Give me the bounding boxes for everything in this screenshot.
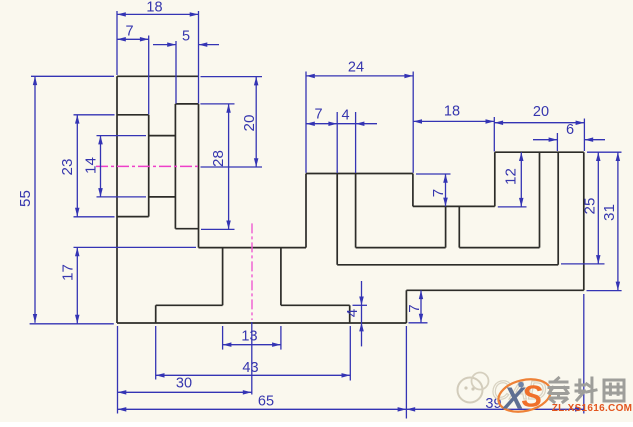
extension line y=216.8 xyxy=(74,216,115,218)
svg-text:7: 7 xyxy=(125,24,133,40)
outline shelf below inner column xyxy=(175,228,198,230)
outline boss left side xyxy=(222,248,224,306)
extension line y=247.4 long xyxy=(74,246,197,248)
dimension 17 xyxy=(60,247,80,323)
extension line x=494.3 xyxy=(493,117,495,152)
extension line x=557.4 xyxy=(556,133,558,151)
extension line x=251.6 bottom xyxy=(251,322,253,395)
outline slot right edge xyxy=(458,206,460,247)
extension line x=222.6 bottom xyxy=(222,326,224,350)
dimension 25 xyxy=(582,152,601,264)
dimension 7 bottom right xyxy=(406,290,423,322)
extension line x=198.5 top xyxy=(198,11,200,104)
outline internal edge b xyxy=(355,174,357,248)
svg-text:24: 24 xyxy=(348,60,364,76)
svg-text:5: 5 xyxy=(182,29,190,45)
outline ledge right drop xyxy=(349,305,351,323)
svg-text:6: 6 xyxy=(566,122,574,138)
outline left edge xyxy=(116,76,118,323)
extension line x=406.4 bottom xyxy=(405,326,407,419)
outline rectangle A bottom xyxy=(117,216,149,218)
svg-text:ZL.XS1616.COM: ZL.XS1616.COM xyxy=(552,403,633,414)
extension line x=117 top xyxy=(116,11,118,75)
watermark char 2 xyxy=(576,378,596,402)
extension line y=229.4 xyxy=(201,228,235,230)
outline central shelf xyxy=(199,247,307,249)
outline middle shelf xyxy=(413,205,495,207)
dimension 55 left xyxy=(17,76,37,322)
outline step at bottom right xyxy=(405,290,407,323)
extension line x=176 xyxy=(175,41,177,104)
extension line x=337.2 xyxy=(336,112,338,173)
svg-text:4: 4 xyxy=(344,309,361,317)
dimension 28 xyxy=(210,104,231,229)
svg-text:12: 12 xyxy=(502,168,519,185)
svg-text:18: 18 xyxy=(146,0,162,16)
dimension 6 (outside arrows) xyxy=(533,122,605,142)
extension line y=206.9 xyxy=(498,206,527,208)
extension line y=196.9 xyxy=(97,196,147,198)
extension line y=322.8 small xyxy=(409,322,428,324)
outline bottom edge xyxy=(117,322,406,324)
outline right-view left edge xyxy=(305,174,307,248)
svg-text:28: 28 xyxy=(210,150,227,167)
extension line x=280.9 bottom xyxy=(280,326,282,350)
outline ledge right segment xyxy=(281,304,350,306)
dimension 20 left view xyxy=(241,77,258,167)
outline ledge left segment xyxy=(156,304,223,306)
outline right-view top-left edge xyxy=(306,173,413,175)
outline top edge of inner column xyxy=(175,103,198,105)
dimension 18 right view xyxy=(413,104,494,124)
svg-text:55: 55 xyxy=(17,190,34,207)
outline lower edge of right section xyxy=(406,289,583,291)
extension line x=117.5 bottom xyxy=(117,326,119,414)
extension line y=135.6 xyxy=(97,135,147,137)
extension line y=103.9 right xyxy=(200,103,234,105)
svg-text:20: 20 xyxy=(241,115,258,132)
dimension 43 xyxy=(156,360,351,378)
watermark XS logo ellipse xyxy=(495,374,554,416)
dimension 7 top right xyxy=(306,107,337,127)
extension line y=305.3 small xyxy=(353,304,368,306)
svg-text:S: S xyxy=(522,379,543,414)
outline rectangle B top xyxy=(149,135,176,137)
extension line y=174 xyxy=(416,173,451,175)
watermark XS logo dot xyxy=(518,382,524,388)
extension line y=76.3 left xyxy=(31,75,114,77)
extension line y=323.8 left xyxy=(30,323,114,325)
dimension 24 xyxy=(306,60,413,79)
outline inner shelf right part xyxy=(459,247,539,249)
dimension 20 right view xyxy=(494,104,584,125)
svg-text:20: 20 xyxy=(533,104,549,120)
watermark ghost circle small xyxy=(472,373,489,390)
outline boss right side xyxy=(280,248,282,306)
watermark text zi liao wang xyxy=(549,378,568,402)
svg-text:7: 7 xyxy=(406,304,423,312)
svg-text:30: 30 xyxy=(176,376,192,392)
extension line x=155.7 bottom xyxy=(155,326,157,380)
dimension 39 xyxy=(406,396,583,412)
outline right edge of upper-left block xyxy=(198,104,200,248)
outline internal edge c xyxy=(539,152,541,247)
dimension 31 xyxy=(601,152,620,290)
dimension 65 xyxy=(118,394,407,412)
watermark char 3 xyxy=(604,380,624,401)
extension line x=355.6 xyxy=(355,112,357,173)
dimension 7 right view vertical xyxy=(430,174,448,207)
outline top edge of right block xyxy=(495,151,584,153)
extension line y=263.9 xyxy=(561,263,605,265)
outline internal edge a xyxy=(336,174,338,265)
outline top edge of upper-left block xyxy=(117,75,199,77)
extension line x=148.7 xyxy=(148,36,150,115)
outline upper step edge xyxy=(494,152,496,206)
svg-text:25: 25 xyxy=(582,198,599,215)
outline rectangle A top xyxy=(117,114,149,116)
outline rectangle A right xyxy=(148,115,150,217)
dimension 13 xyxy=(223,329,281,347)
outline right edge xyxy=(583,152,585,290)
dimension 30 xyxy=(118,376,252,395)
centerline vertical xyxy=(251,223,253,320)
svg-text:43: 43 xyxy=(242,360,258,376)
outline inner shelf left part xyxy=(356,247,446,249)
extension line y=114.8 xyxy=(74,114,115,116)
extension line x=583.8 bottom xyxy=(583,294,585,414)
dimension 14 xyxy=(83,136,103,197)
svg-text:23: 23 xyxy=(59,159,76,176)
extension line x=584.4 xyxy=(583,119,585,152)
extension line y=290.6 xyxy=(587,290,622,292)
outline wide inner shelf xyxy=(337,264,558,266)
dimension 23 xyxy=(59,115,80,217)
centerline horizontal xyxy=(96,165,199,167)
svg-text:18: 18 xyxy=(444,104,460,120)
extension line y=152.2 far right xyxy=(587,151,622,153)
dimension 4 top right (outside right arrow) xyxy=(337,108,377,127)
extension line x=306 xyxy=(305,72,307,173)
svg-text:7: 7 xyxy=(314,107,322,123)
dimension 4 bottom (outside arrows) xyxy=(344,281,364,346)
extension line x=413.2 xyxy=(412,72,414,173)
extension line y=167 xyxy=(201,166,263,168)
svg-text:65: 65 xyxy=(258,394,274,410)
watermark ghost eyes xyxy=(464,386,467,389)
svg-text:7: 7 xyxy=(430,189,447,197)
dimension 5 top left (outside arrows) xyxy=(153,29,219,47)
watermark ghost circle large xyxy=(458,378,483,403)
extension line y=76.6 right xyxy=(201,76,263,78)
dimension 18 top left xyxy=(117,0,199,17)
extension line x=350.3 bottom xyxy=(349,326,351,381)
svg-text:4: 4 xyxy=(341,108,349,124)
svg-text:14: 14 xyxy=(83,157,100,174)
outline ledge left drop xyxy=(155,305,157,323)
outline left edge of inner column xyxy=(174,104,176,229)
dimension 12 xyxy=(502,152,523,207)
outline internal edge d xyxy=(557,152,559,265)
svg-text:13: 13 xyxy=(241,329,257,345)
svg-text:31: 31 xyxy=(601,204,618,221)
outline step down edge xyxy=(412,174,414,207)
outline slot left edge xyxy=(445,206,447,247)
dimension 7 top left xyxy=(117,24,149,42)
outline rectangle B bottom xyxy=(149,196,176,198)
svg-text:17: 17 xyxy=(60,264,77,281)
